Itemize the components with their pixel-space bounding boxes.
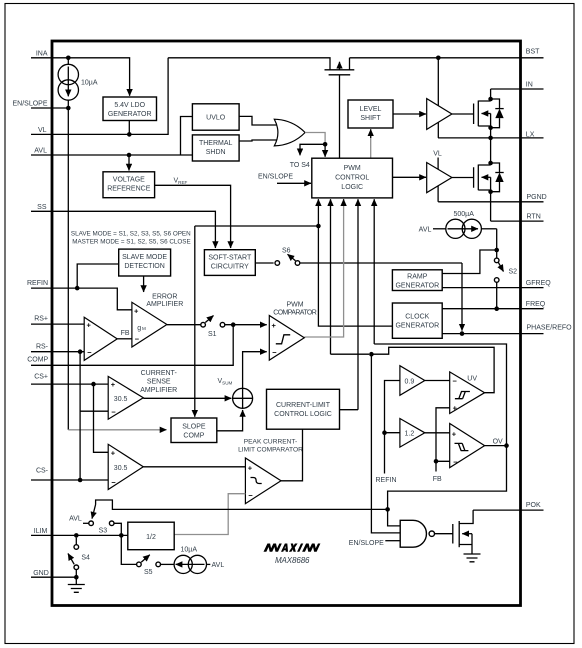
pin POK [473,502,543,510]
svg-text:+: + [272,321,277,330]
wire PWM bus 2 (to comparator node) [330,199,332,354]
wire OV output to loop [485,445,507,447]
svg-text:VL: VL [38,127,47,134]
wire EN/SLOPE vertical rail to slope comp [67,108,69,430]
svg-text:INA: INA [36,50,48,57]
node REFIN junction [75,286,80,291]
wire CS+ branch to second 30.5 amp [94,384,109,452]
pin RS- [31,344,84,352]
wire UVLO output to OR gate [239,116,278,125]
wire OR output (gray) to PWM logic [305,133,325,145]
svg-text:−: − [453,458,458,467]
node GND junction [74,575,79,580]
node EN/SLOPE junction [66,106,71,111]
svg-text:S5: S5 [144,569,153,576]
pin IN [491,82,544,90]
node FREQ junction [494,306,499,311]
svg-text:FREQ: FREQ [526,301,546,308]
node COMP junction [231,322,236,327]
svg-text:GFREQ: GFREQ [526,280,551,287]
wire PWM bus 4 (current-limit logic) [357,199,359,410]
wire gray feed into slope comp [68,429,166,431]
transistor Q3 low-side MOSFET [452,138,491,221]
amplifier U11 0.9 scaler [400,366,425,396]
wire FB to UV + and OV - inputs [436,408,450,472]
svg-text:AVL: AVL [34,148,47,155]
svg-text:+: + [87,320,92,329]
node REFIN scaler junction [382,430,387,435]
svg-text:S4: S4 [81,554,90,561]
wire shutdown into PWM logic top [324,144,326,157]
svg-text:10µA: 10µA [81,80,98,87]
wire thermal shdn output to OR gate [239,140,278,141]
svg-text:SHDN: SHDN [206,149,226,156]
logo MAXIM [264,544,321,552]
svg-text:g: g [137,325,141,332]
svg-text:−: − [135,334,140,343]
block 1/2 divider [128,522,174,550]
svg-text:REFIN: REFIN [27,280,48,287]
node LX junction [488,136,493,141]
pin GND [31,570,76,577]
svg-text:S1: S1 [208,331,217,338]
wire PWM bus 1 (soft-start / clock) [195,199,393,417]
op-amp U5 remote-sense buffer [84,317,117,360]
wire shutdown to S4 arrow [300,144,325,155]
wire 500uA node to ramp generator [442,250,497,274]
svg-text:PGND: PGND [527,194,547,201]
svg-text:EN/SLOPE: EN/SLOPE [349,540,384,547]
pin LX [438,132,543,139]
block slope comp [171,418,217,443]
svg-text:CURRENT-: CURRENT- [141,370,178,377]
amplifier U12 1.2 scaler [400,419,425,448]
pin RS+ [31,316,84,325]
switch S1 [201,316,225,338]
svg-text:−: − [87,348,92,357]
svg-text:RTN: RTN [527,213,541,220]
svg-text:−: − [248,491,253,500]
svg-text:AMPLIFIER: AMPLIFIER [146,301,183,308]
node Q3 drain [488,161,493,166]
pin FREQ [442,301,546,309]
svg-text:0.9: 0.9 [405,378,415,385]
wire summing junction output to PWM comparator inverting input [243,352,267,389]
svg-text:−: − [272,348,277,357]
node S3 control junction [385,507,390,512]
svg-text:FB: FB [121,330,130,337]
wire pass FET gate to PWM logic [339,75,341,158]
switch S2 [494,258,517,282]
wire peak comparator output to current-limit logic [281,429,303,481]
svg-text:+: + [248,463,253,472]
svg-text:GND: GND [33,570,49,577]
wire S6 to PHASE/REFO node [300,263,462,331]
svg-text:UVLO: UVLO [206,115,226,122]
svg-text:10µA: 10µA [181,547,198,554]
op-amp U6 error amplifier gm [132,302,167,347]
svg-text:LOGIC: LOGIC [341,184,363,191]
svg-text:SENSE: SENSE [147,378,171,385]
op-amp U9 peak limit sense amplifier 30.5 [108,444,143,489]
comparator U10 peak current-limit comparator [245,458,281,504]
amplifier U3 high-side gate driver [427,99,452,130]
svg-text:RS-: RS- [36,344,49,351]
svg-text:SLAVE MODE = S1, S2, S3, S5, S: SLAVE MODE = S1, S2, S3, S5, S6 OPEN [71,230,191,237]
svg-text:GENERATOR: GENERATOR [108,111,152,118]
current source I2 500uA [419,211,497,238]
wire PWM bus 3 (gray, PWM comparator output) [304,199,343,337]
svg-text:+: + [452,429,457,438]
wire VL rail through low-side driver to PGND [437,158,439,202]
node shutdown junction [323,142,328,147]
pin EN/SLOPE [12,101,70,109]
current source I3 10uA (ILIM offset) [174,547,224,574]
pin SS [31,204,215,248]
svg-text:COMP: COMP [183,433,204,440]
wire bus junction down to NAND input B [371,354,400,533]
pin PGND [438,194,547,202]
wire S3 control arrow [92,505,96,519]
svg-text:COMPARATOR: COMPARATOR [273,309,317,316]
wire EN/SLOPE into PWM logic [277,182,311,184]
svg-text:CURRENT-LIMIT: CURRENT-LIMIT [276,402,331,409]
svg-text:SLOPE: SLOPE [182,424,206,431]
op-amp U8 current-sense amplifier 30.5 [108,376,143,419]
node RS- junction [78,349,83,354]
node Q2 source [488,125,493,130]
label PWM comparator [273,301,317,316]
wire RS- to current-sense amp inverting input [80,352,108,480]
svg-text:M: M [142,326,146,331]
svg-text:CONTROL: CONTROL [335,175,369,182]
svg-text:5.4V LDO: 5.4V LDO [114,102,145,109]
diode D1 high-side body diode [491,99,504,128]
svg-text:S3: S3 [99,527,108,534]
svg-text:GENERATOR: GENERATOR [395,323,439,330]
node ILIM junction A [74,533,79,538]
svg-text:500µA: 500µA [454,211,475,218]
svg-text:SOFT-START: SOFT-START [208,255,252,262]
svg-text:COMP: COMP [27,357,48,364]
wire NAND output to POK FET gate [435,533,453,535]
label peak current-limit comparator [238,438,303,453]
svg-text:CLOCK: CLOCK [405,314,429,321]
pin CS+ [31,374,108,384]
label slave/master mode note [71,230,191,245]
svg-text:PHASE/REFO: PHASE/REFO [527,324,573,331]
wire PWM logic to level shift [370,129,372,158]
svg-text:DETECTION: DETECTION [124,263,164,270]
svg-text:VOLTAGE: VOLTAGE [113,177,145,184]
pin GFREQ [442,280,551,287]
diode D2 low-side body diode [491,163,504,192]
node AVL junction [127,153,132,158]
wire LDO output to VL line [128,121,130,135]
svg-text:PWM: PWM [344,165,361,172]
block level shift [348,100,393,128]
svg-text:AVL: AVL [69,515,82,522]
svg-text:1/2: 1/2 [146,534,156,541]
wire slave mode detection to error amp [143,276,145,292]
wire BST rail down to high-side driver [437,58,439,138]
block thermal shutdown [192,135,239,161]
svg-text:−: − [453,377,458,386]
svg-text:ERROR: ERROR [152,294,177,301]
node UV bus junction [369,352,374,357]
pin INA [31,50,130,96]
summing junction [233,388,253,408]
svg-text:+: + [134,306,139,315]
node Q3 source [488,189,493,194]
wire UV output jog to bus junction [371,347,494,392]
svg-text:−: − [111,478,116,487]
svg-text:PEAK CURRENT-: PEAK CURRENT- [244,438,298,445]
block ramp generator [392,270,442,291]
svg-text:S2: S2 [509,269,518,276]
node VL junction [127,132,132,137]
svg-text:30.5: 30.5 [114,396,128,403]
node CS+ junction [91,382,96,387]
block UVLO [192,104,239,130]
svg-text:TO S4: TO S4 [290,162,310,169]
svg-text:CS-: CS- [36,467,49,474]
block current-limit control logic [267,389,340,429]
svg-text:CS+: CS+ [34,374,48,381]
node bus1 junction [316,224,321,229]
block voltage reference [103,172,155,198]
current source I1 10uA (INA to EN/SLOPE) [58,58,98,108]
svg-text:REFIN: REFIN [376,477,397,484]
pin CS- [31,467,108,480]
wire S3 control line [96,500,388,509]
pin AVL [31,117,192,156]
svg-text:REFERENCE: REFERENCE [107,186,151,193]
label current-sense amplifier [140,370,177,394]
pin COMP [27,325,233,366]
wire ILIM to S5 [121,535,136,564]
node BST junction [436,56,441,61]
node FB junction [434,459,439,464]
amplifier U4 low-side gate driver [427,163,452,193]
block PWM control logic [312,158,393,198]
svg-text:CONTROL LOGIC: CONTROL LOGIC [274,411,332,418]
nand gate U15 [400,520,434,547]
switch S6 [255,247,300,265]
wire S3 to ILIM line [114,523,121,535]
svg-text:AVL: AVL [212,562,225,569]
svg-text:LIMIT COMPARATOR: LIMIT COMPARATOR [238,447,303,454]
node INA junction [66,56,71,61]
svg-text:−: − [111,408,116,417]
node OV output on loop [504,443,509,448]
wire PWM bus 5 (to UV/OV loop) [373,199,375,344]
IC boundary MAX8686 [52,41,521,606]
wire REFIN reference to 0.9 and 1.2 scalers [385,381,400,474]
switch S3 [83,521,114,534]
svg-text:POK: POK [526,502,541,509]
wire 1.2 output to OV comparator [425,432,450,434]
svg-text:LEVEL: LEVEL [360,106,382,113]
svg-text:FB: FB [433,476,442,483]
svg-text:30.5: 30.5 [114,465,128,472]
ground symbol (GND pin) [68,577,85,592]
wire EN/SLOPE to NAND input [385,540,400,542]
wire PWM logic to low-side driver [393,176,427,178]
node PHASE/REFO junction [460,331,465,336]
or-gate U2 [274,119,305,146]
block slave mode detection [119,249,171,276]
block soft-start circuitry [204,250,255,276]
transistor Q1 pass FET (VL to BST) [168,58,354,75]
transistor Q2 high-side MOSFET [452,89,491,138]
svg-text:+: + [453,404,458,413]
svg-text:SHIFT: SHIFT [360,115,381,122]
comparator U13 UV comparator [450,372,485,414]
switch S4 [68,538,90,578]
svg-text:MAX8686: MAX8686 [275,556,310,565]
wire REFIN branch to slave mode detection [77,264,119,288]
svg-text:RAMP: RAMP [407,274,428,281]
svg-text:VL: VL [433,151,442,158]
node ILIM junction B [119,533,124,538]
svg-text:RS+: RS+ [34,316,48,323]
svg-text:1.2: 1.2 [405,431,415,438]
wire 500uA output down to S2 and FREQ [496,229,498,309]
wire VREF to soft-start [155,185,231,248]
svg-text:SLAVE MODE: SLAVE MODE [122,254,167,261]
ground symbol (POK FET) [464,554,481,562]
node S2 top junction [494,248,499,253]
svg-text:BST: BST [526,49,540,56]
svg-text:ILIM: ILIM [34,528,48,535]
pin ILIM [31,528,128,536]
wire 30.5 amp to peak comparator + input [143,466,245,468]
transistor Q4 POK open-drain MOSFET [453,510,473,554]
block 5.4V LDO generator [103,97,157,121]
svg-text:PWM: PWM [286,301,303,308]
svg-text:THERMAL: THERMAL [199,140,233,147]
svg-text:+: + [111,448,116,457]
wire 1/2 divider to peak comparator - input (gray) [174,494,245,535]
svg-text:AMPLIFIER: AMPLIFIER [140,387,177,394]
comparator U14 OV comparator [450,424,485,468]
svg-text:EN/SLOPE: EN/SLOPE [258,174,293,181]
wire level shift to high-side driver [393,113,426,115]
comparator U7 PWM comparator [269,316,304,361]
node Q2 drain [488,97,493,102]
pin PHASE/REFO [442,324,572,333]
wire AVL to voltage reference [128,155,130,171]
svg-text:S6: S6 [282,247,291,254]
block clock generator [392,303,442,338]
wire 0.9 output to UV comparator [425,380,450,382]
svg-text:UV: UV [467,375,477,382]
pin BST [350,49,544,58]
switch S5 [137,555,161,576]
svg-text:+: + [111,380,116,389]
svg-text:MASTER MODE = S1, S2, S5, S6 C: MASTER MODE = S1, S2, S5, S6 CLOSE [72,238,190,245]
wire current-sense amp output into summing junction [143,397,231,399]
wire error amp output to S1 [167,324,201,326]
pin RTN [491,213,544,221]
wire COMP node into PWM comparator [225,324,267,326]
label error amplifier [146,294,183,308]
svg-text:AVL: AVL [419,227,432,234]
wire buffer output to error amp inverting input [117,338,132,340]
svg-text:CIRCUITRY: CIRCUITRY [211,264,249,271]
svg-text:IN: IN [526,82,533,89]
pin REFIN [27,280,132,310]
pin VL [31,58,168,135]
svg-text:SS: SS [37,204,47,211]
node CS- junction [78,478,83,483]
svg-text:GENERATOR: GENERATOR [395,282,439,289]
wire S5 to 10uA source [161,563,175,565]
svg-text:OV: OV [493,438,503,445]
svg-text:EN/SLOPE: EN/SLOPE [12,101,47,108]
wire slope comp output into summing junction [217,410,243,431]
